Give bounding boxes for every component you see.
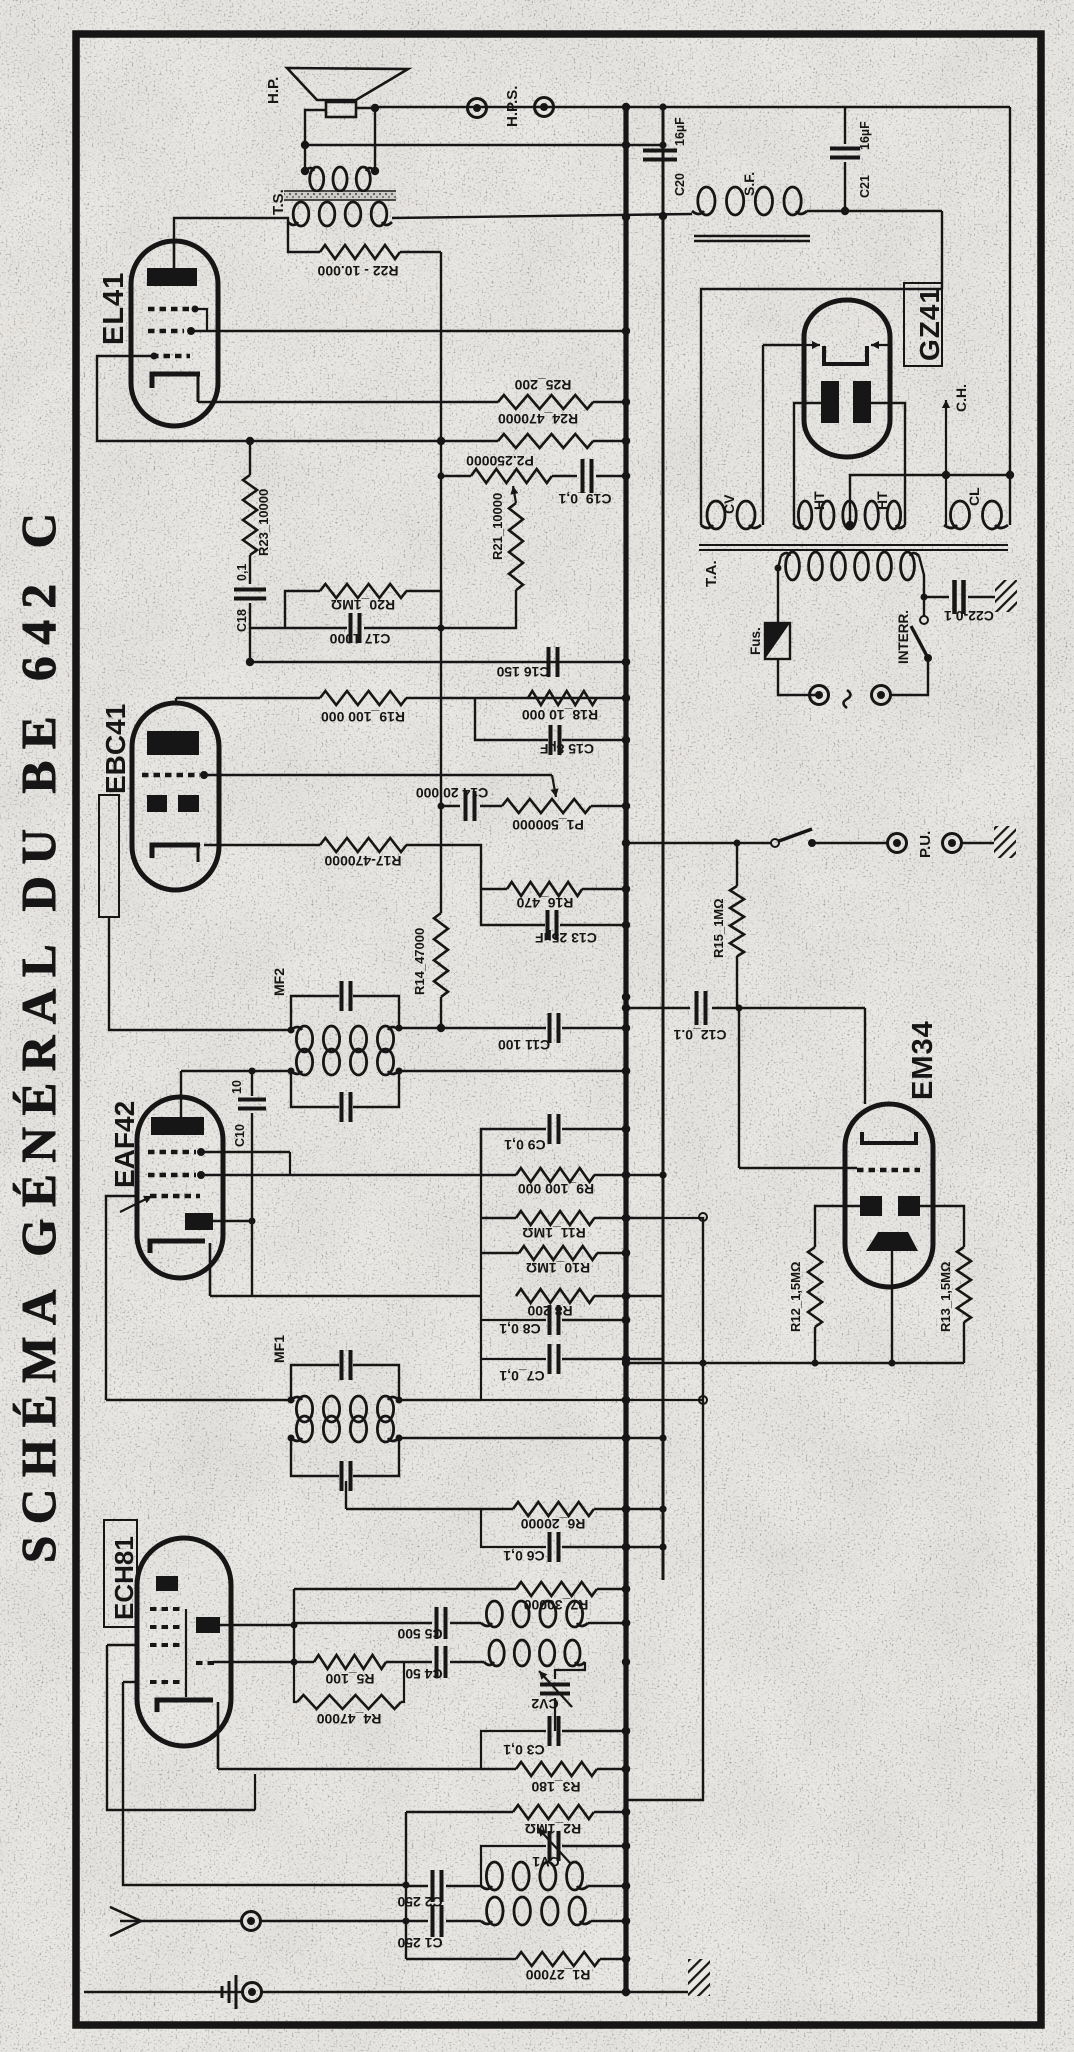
wire HPS line — [375, 106, 1010, 108]
svg-text:R19_100 000: R19_100 000 — [321, 709, 405, 725]
switch P.U. — [779, 829, 812, 841]
wire ladder left side — [480, 1129, 482, 1296]
speaker H.P. — [287, 68, 408, 100]
svg-text:R13_1,5MΩ: R13_1,5MΩ — [938, 1262, 953, 1332]
svg-text:HT: HT — [811, 491, 827, 510]
switch INTERR. — [924, 654, 932, 662]
resistor R13 — [920, 1206, 964, 1247]
svg-text:MF1: MF1 — [271, 1335, 287, 1363]
svg-text:C13 25µF: C13 25µF — [535, 930, 597, 946]
wire plate EL41 to T.S. — [174, 218, 288, 244]
svg-text:R10_1MΩ: R10_1MΩ — [526, 1260, 590, 1276]
svg-text:R25_200: R25_200 — [514, 377, 571, 393]
svg-text:EM34: EM34 — [907, 1020, 939, 1100]
wire right feed down — [941, 211, 943, 289]
capacitor C10 — [251, 1071, 253, 1096]
capacitor MF2 top — [340, 981, 344, 1011]
svg-text:CV: CV — [721, 494, 737, 514]
svg-text:C22-0.1: C22-0.1 — [944, 608, 994, 624]
wire AVC bus — [628, 1217, 703, 1800]
MF1 box bottom — [291, 1438, 339, 1476]
tube EL41 — [131, 241, 218, 426]
svg-text:R6_20000: R6_20000 — [520, 1516, 585, 1532]
svg-text:CL: CL — [966, 487, 982, 506]
svg-text:C2 250: C2 250 — [397, 1894, 442, 1910]
wire cathode line — [210, 1295, 481, 1297]
svg-text:C4 50: C4 50 — [405, 1666, 443, 1682]
EL41 grid 2 — [148, 329, 184, 334]
svg-text:R15_1MΩ: R15_1MΩ — [711, 898, 726, 958]
svg-text:C7_0,1: C7_0,1 — [499, 1368, 544, 1384]
svg-text:C18: C18 — [235, 609, 249, 632]
resistor R19 — [320, 691, 406, 705]
ECH81 anode 1 — [156, 1576, 178, 1591]
svg-text:R20_1MΩ: R20_1MΩ — [331, 597, 395, 613]
svg-text:C1 250: C1 250 — [397, 1935, 442, 1951]
capacitor C17 — [250, 627, 347, 629]
antenna coil L2 — [487, 1897, 503, 1925]
wire diode out — [213, 1220, 252, 1222]
svg-text:P.U.: P.U. — [917, 831, 934, 858]
svg-text:R4_47000: R4_47000 — [316, 1711, 381, 1727]
svg-text:C11 100: C11 100 — [498, 1037, 550, 1053]
T.A. core — [699, 544, 1008, 546]
tube ECH81 — [137, 1538, 231, 1746]
EL41 anode — [147, 268, 197, 286]
svg-text:C17 1000: C17 1000 — [329, 631, 390, 647]
svg-text:ECH81: ECH81 — [109, 1536, 139, 1620]
svg-text:P2.250000: P2.250000 — [466, 453, 534, 469]
wire primary left to fuse — [778, 556, 781, 623]
resistor R24 — [498, 434, 593, 448]
potentiometer P1 — [502, 799, 591, 813]
svg-text:C12_0.1: C12_0.1 — [673, 1027, 726, 1043]
EAF42 cathode — [150, 1241, 205, 1253]
svg-text:16µF: 16µF — [858, 121, 872, 150]
wire R19 R18 line — [175, 698, 177, 703]
resistor R22 — [288, 222, 320, 252]
fuse Fus. — [765, 623, 790, 659]
svg-text:T.A.: T.A. — [703, 560, 720, 587]
wire fuse to plug — [778, 659, 819, 695]
svg-text:R3_180: R3_180 — [531, 1779, 580, 1795]
wire ECH81 g left2 — [123, 1681, 137, 1683]
svg-text:R23_10000: R23_10000 — [256, 489, 271, 556]
transformer MF2 box — [291, 996, 339, 1030]
svg-text:S.F.: S.F. — [741, 172, 757, 196]
wire EBC41 to MF2 — [109, 917, 291, 1030]
resistor R25 — [498, 395, 593, 409]
svg-text:R5_100: R5_100 — [325, 1671, 374, 1687]
svg-text:C15 8µF: C15 8µF — [540, 741, 594, 757]
MF2 box bottom — [291, 1071, 339, 1107]
oscillator coil L3 — [486, 1601, 502, 1627]
svg-text:C6 0,1: C6 0,1 — [503, 1548, 544, 1564]
wire MF1 to R6 — [345, 1481, 347, 1509]
wire grid1 to box — [201, 1151, 290, 1153]
EM34 target — [866, 1232, 918, 1251]
wire main HT+ bus — [623, 105, 628, 1992]
wire R7 line — [294, 1588, 516, 1590]
wire grid2 line — [201, 1174, 516, 1176]
svg-text:EAF42: EAF42 — [109, 1101, 140, 1188]
capacitor C21 — [844, 107, 846, 144]
svg-text:R24_470000: R24_470000 — [498, 411, 578, 427]
wire grid line 2 — [213, 1661, 294, 1663]
svg-text:R14_47000: R14_47000 — [412, 928, 427, 995]
ground P.U. — [994, 826, 1016, 858]
resistor R3 — [516, 1762, 597, 1776]
svg-text:C10: C10 — [233, 1124, 247, 1147]
resistor R6 — [513, 1502, 594, 1516]
EAF42 grid 3 — [150, 1194, 200, 1199]
wire P.U. line — [626, 842, 771, 844]
transformer T.S. secondary — [310, 167, 324, 191]
MF1 winding 2 — [296, 1416, 312, 1442]
capacitor C8 — [481, 1296, 546, 1320]
svg-text:T.S.: T.S. — [270, 189, 287, 215]
svg-text:R22 - 10.000: R22 - 10.000 — [317, 263, 398, 279]
T.A. primary — [786, 552, 800, 580]
winding CV — [707, 501, 725, 529]
wire R2 line — [406, 1811, 513, 1813]
resistor R17 — [320, 838, 406, 852]
wire filament left — [763, 344, 800, 346]
terminal antenna — [242, 1912, 261, 1931]
svg-text:EBC41: EBC41 — [100, 704, 131, 794]
capacitor C15 — [549, 725, 553, 755]
svg-text:10: 10 — [230, 1080, 244, 1094]
resistor R18 box — [528, 691, 597, 705]
GZ41 anode 2 — [853, 381, 871, 423]
P2 wiper arrow — [513, 486, 516, 503]
capacitor C13 — [481, 889, 545, 925]
ECH81 cathode — [157, 1700, 213, 1712]
MF1 winding 1 — [296, 1396, 312, 1422]
wire ECH81 osc anode — [220, 1624, 294, 1626]
ground C22 — [995, 580, 1017, 612]
capacitor C6 box — [481, 1509, 546, 1547]
wire R17 line — [204, 844, 320, 846]
capacitor C14 — [441, 805, 460, 807]
tube EBC41 — [132, 703, 219, 890]
svg-text:GZ41: GZ41 — [914, 287, 945, 361]
wire MF2 to EAF42 — [181, 1070, 291, 1072]
capacitor C22 — [924, 596, 949, 598]
wire T.S. to S.F. line — [392, 214, 692, 218]
capacitor C18 — [234, 588, 266, 592]
ground chassis — [688, 1959, 710, 1996]
EAF42 diode plate — [185, 1213, 213, 1230]
svg-text:R12_1,5MΩ: R12_1,5MΩ — [788, 1262, 803, 1332]
svg-text:R21_10000: R21_10000 — [490, 493, 505, 560]
svg-text:R18_10 000: R18_10 000 — [522, 707, 599, 723]
terminal mains 1 — [810, 686, 829, 705]
wire secondary bus — [662, 107, 665, 1580]
choke S.F. — [698, 187, 715, 215]
wire mains2 to switch — [890, 659, 928, 695]
resistor R23 — [249, 441, 251, 475]
svg-text:R11_1MΩ: R11_1MΩ — [522, 1225, 585, 1241]
wire speaker right — [356, 108, 375, 171]
resistor R5 — [294, 1661, 314, 1663]
svg-text:C19_0,1: C19_0,1 — [558, 491, 611, 507]
EM34 grid — [857, 1168, 920, 1173]
resistor R12 — [815, 1206, 860, 1247]
EM34 plate 1 — [860, 1196, 882, 1216]
winding CL — [951, 501, 970, 529]
capacitor CV1 box — [481, 1846, 546, 1886]
wire antenna line — [141, 1920, 242, 1922]
svg-text:R1_27000: R1_27000 — [525, 1967, 590, 1983]
ECH81 grids — [150, 1607, 182, 1611]
wire anode2 to HT — [866, 403, 905, 525]
tube EAF42 — [137, 1097, 223, 1278]
terminal P.U. 1 — [888, 834, 907, 853]
EM34 cathode bracket — [862, 1132, 916, 1143]
svg-text:R9_100 000: R9_100 000 — [518, 1181, 595, 1197]
svg-text:0,1: 0,1 — [235, 564, 249, 581]
secondary bus dots — [659, 103, 666, 110]
EBC41 diode plates — [147, 795, 167, 812]
wire EL41 grid3 return — [97, 356, 498, 441]
svg-text:16µF: 16µF — [673, 117, 687, 146]
resistor R14 — [434, 913, 448, 997]
capacitor C20 — [643, 149, 677, 153]
EL41 grid 3 — [152, 354, 190, 359]
svg-text:HT: HT — [874, 491, 890, 510]
GZ41 filament — [824, 346, 867, 364]
winding HT — [798, 501, 811, 529]
capacitor C12 — [695, 991, 699, 1025]
svg-text:Fus.: Fus. — [748, 627, 763, 655]
label mains ~ — [844, 690, 851, 708]
terminal H.P.S. 2 — [535, 98, 554, 117]
resistor R20 box — [285, 591, 320, 628]
wire grid EM34 drop — [738, 1008, 740, 1168]
wire ECH81 g left1 — [107, 1644, 137, 1646]
capacitor C19 — [581, 459, 585, 493]
svg-text:C9 0,1: C9 0,1 — [504, 1137, 545, 1153]
capacitor C5 — [294, 1622, 432, 1624]
capacitor C7 — [481, 1320, 546, 1359]
wire MF2 w1 right — [399, 1027, 441, 1029]
capacitor C3 box — [481, 1731, 546, 1769]
svg-text:C16 150: C16 150 — [496, 664, 549, 680]
EBC41 anode — [147, 731, 199, 755]
EL41 cathode — [152, 374, 200, 388]
svg-text:C21: C21 — [858, 175, 872, 198]
ground symbol — [235, 1975, 238, 2009]
resistor R11 — [481, 1217, 516, 1219]
EM34 plate 2 — [898, 1196, 920, 1216]
wire anode1 to HT — [794, 403, 826, 525]
resistor R16 box — [481, 888, 507, 890]
wire EM34 top drop — [864, 1008, 866, 1104]
capacitor C9 box — [481, 1129, 546, 1175]
wire EL41 cathode line R25 — [198, 401, 498, 403]
svg-text:C5 500: C5 500 — [397, 1626, 442, 1642]
capacitor C16 — [547, 647, 551, 677]
resistor R1 — [516, 1952, 600, 1966]
EBC41 label box — [99, 795, 119, 917]
tube EM34 — [845, 1104, 933, 1287]
transformer T.A. box — [701, 289, 942, 525]
wire R22 to P2 box — [440, 252, 442, 913]
wire primary right — [919, 556, 924, 616]
wire EM34 cathode down — [891, 1251, 893, 1363]
capacitor C2 — [406, 1885, 428, 1887]
wire ladder bottom — [480, 1359, 482, 1400]
wire CV to filament — [762, 345, 764, 525]
wire C11 line — [441, 1027, 546, 1029]
antenna — [110, 1907, 141, 1936]
wire C16 line — [250, 661, 626, 663]
GZ41 anode 1 — [821, 381, 839, 423]
capacitor MF2 bottom — [340, 1092, 344, 1122]
potentiometer P2 — [441, 475, 471, 477]
tube GZ41 — [804, 300, 890, 457]
resistor R21 — [509, 503, 523, 590]
MF2 winding 2 — [296, 1049, 312, 1075]
svg-text:EL41: EL41 — [98, 272, 130, 345]
svg-text:MF2: MF2 — [271, 968, 287, 996]
svg-text:SCHÉMA GÉNÉRAL DU BE 642 C: SCHÉMA GÉNÉRAL DU BE 642 C — [11, 513, 66, 1563]
svg-text:R17-470000: R17-470000 — [324, 853, 401, 869]
wire EL41 grid2 line — [191, 330, 626, 332]
svg-text:P1_500000: P1_500000 — [512, 817, 584, 833]
wire ground line — [84, 1991, 242, 1993]
capacitor CV2 — [555, 1662, 585, 1679]
wire S.F. out — [807, 210, 942, 212]
wire EM34 feed — [626, 1007, 690, 1009]
capacitor MF1 top — [340, 1350, 344, 1380]
bus junction dots — [622, 103, 630, 111]
svg-text:H.P.S.: H.P.S. — [504, 86, 521, 127]
oscillator coil L4 — [489, 1640, 504, 1666]
resistor R8 — [516, 1289, 594, 1303]
capacitor C1 — [431, 1905, 435, 1937]
wire R3 line — [218, 1768, 516, 1770]
wire MF2 w2 right long — [399, 1070, 626, 1072]
svg-text:C8 0,1: C8 0,1 — [499, 1321, 540, 1337]
transformer T.S. primary — [293, 202, 309, 226]
svg-text:C14 20.000: C14 20.000 — [416, 785, 489, 801]
label box GZ41 — [904, 283, 942, 366]
wire R7 drop — [293, 1589, 295, 1662]
svg-text:R16_470: R16_470 — [516, 895, 573, 911]
svg-text:H.P.: H.P. — [265, 77, 282, 104]
node speaker-right junction — [371, 104, 379, 112]
capacitor MF1 bottom — [340, 1461, 344, 1491]
terminal mains 2 — [872, 686, 891, 705]
terminal ground — [243, 1983, 262, 2002]
wire EM34 grid line — [739, 1167, 857, 1169]
transformer T.S. core — [284, 192, 396, 199]
ECH81 anode 2 — [196, 1617, 220, 1633]
resistor R4 box — [294, 1662, 297, 1702]
wire EBC41 grid line — [204, 774, 552, 776]
wire EAF42 left drop — [106, 1196, 137, 1400]
svg-text:R2_1MΩ: R2_1MΩ — [525, 1821, 581, 1837]
transformer MF1 box — [291, 1365, 339, 1400]
heater C.H. arrow — [945, 400, 947, 525]
capacitor C11 — [548, 1013, 552, 1043]
wire R2 drop — [405, 1812, 407, 1959]
wire R1 line — [406, 1958, 516, 1960]
svg-text:CV2: CV2 — [531, 1696, 558, 1712]
svg-text:C20: C20 — [673, 173, 687, 196]
resistor R2 — [513, 1805, 594, 1819]
resistor R10 — [481, 1252, 519, 1254]
resistor R7 — [516, 1582, 597, 1596]
capacitor C4 — [435, 1646, 439, 1678]
wire ground to bus — [261, 1991, 689, 1993]
antenna coil L1 — [486, 1862, 502, 1890]
wire MF1 w2 right long — [399, 1437, 663, 1439]
terminal P.U. 2 — [943, 834, 962, 853]
svg-text:INTERR.: INTERR. — [896, 610, 911, 664]
wire MF1 w1 leads — [106, 1399, 291, 1401]
wire top right corner — [1009, 107, 1011, 525]
wire antenna to C1 — [261, 1920, 428, 1922]
svg-text:C3 0,1: C3 0,1 — [503, 1742, 544, 1758]
MF2 winding 1 — [296, 1026, 312, 1052]
wire HT centre tap — [850, 475, 1012, 525]
EAF42 anode — [151, 1117, 204, 1135]
wire P.U. ground — [961, 842, 995, 844]
resistor R9 — [516, 1168, 594, 1182]
EAF42 grid 1 — [148, 1150, 196, 1155]
resistor R15 — [736, 843, 738, 886]
ECH81 label box — [104, 1520, 137, 1627]
wire speaker left — [305, 110, 326, 171]
svg-text:C.H.: C.H. — [953, 384, 969, 412]
S.F. core — [694, 235, 810, 238]
EL41 grid 1 — [148, 307, 190, 312]
terminal H.P.S. 1 — [468, 99, 487, 118]
wire EM34 bottom line — [626, 1362, 964, 1364]
EBC41 grid — [142, 773, 200, 778]
EAF42 grid 2 — [148, 1173, 196, 1178]
wire top second line — [305, 144, 663, 146]
ECH81 internal lead — [185, 1609, 187, 1697]
EBC41 cathode — [152, 845, 200, 858]
